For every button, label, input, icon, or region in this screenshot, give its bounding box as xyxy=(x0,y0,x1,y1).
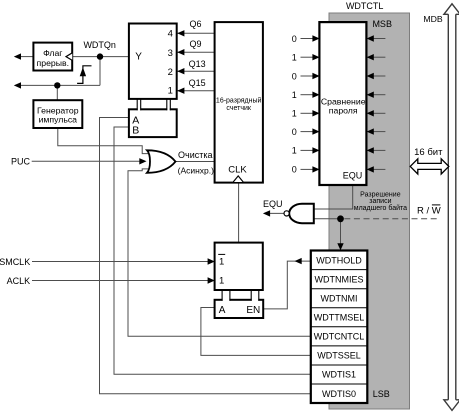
svg-text:младшего байта: младшего байта xyxy=(354,204,407,212)
junction dot WDTQn xyxy=(97,53,103,59)
wire: pulse generator bottom to OR gate top input xyxy=(58,128,151,154)
pulse generator box xyxy=(33,100,82,128)
wire: OR gate output Очистка to counter xyxy=(176,161,215,163)
svg-text:пароля: пароля xyxy=(329,106,358,116)
svg-text:Флаг: Флаг xyxy=(43,48,62,58)
password bit labels xyxy=(292,34,297,175)
wire: WDTCNTCL to OR gate bottom input xyxy=(128,169,311,336)
wire: counter CLK from clock mux xyxy=(238,183,240,243)
svg-text:1: 1 xyxy=(219,257,224,268)
tap mux box xyxy=(129,24,177,99)
wire: tap select B from WDTIS1 xyxy=(114,127,311,374)
wire: R/W to NAND bottom input xyxy=(314,218,341,220)
svg-text:0: 0 xyxy=(292,71,297,81)
svg-text:WDTIS0: WDTIS0 xyxy=(322,389,356,399)
svg-text:Q6: Q6 xyxy=(190,19,202,29)
tap select box A/B xyxy=(129,109,177,137)
password bit arrowheads into box xyxy=(312,35,319,172)
16-bit counter box xyxy=(215,22,263,183)
wire: WDTQn node down to NMI line xyxy=(99,57,101,86)
MDB data bus vertical arrow xyxy=(447,13,449,401)
svg-text:MSB: MSB xyxy=(372,19,392,29)
svg-text:WDTNMI: WDTNMI xyxy=(321,294,358,304)
NAND gate write-enable xyxy=(289,204,314,224)
svg-text:Q15: Q15 xyxy=(189,78,206,88)
svg-text:EQU: EQU xyxy=(263,199,283,209)
wire: SMCLK input xyxy=(32,261,208,263)
svg-text:WDTTMSEL: WDTTMSEL xyxy=(314,313,365,323)
OR gate (clear async) xyxy=(147,150,176,173)
wire: tap select A from WDTIS0 xyxy=(100,118,311,394)
svg-text:1: 1 xyxy=(292,90,297,100)
svg-text:WDTHOLD: WDTHOLD xyxy=(316,255,362,265)
tap mux connector stubs xyxy=(138,108,141,111)
wire: counter Q13 to mux pin 2 xyxy=(177,70,215,72)
wire: counter Q9 to mux pin 3 xyxy=(177,51,215,53)
edge-trigger marker on flag box xyxy=(66,53,72,61)
wire: counter Q15 to mux pin 1 xyxy=(177,90,215,92)
svg-text:16-разрядный: 16-разрядный xyxy=(216,96,262,104)
wire: interrupt flag output left xyxy=(21,56,34,58)
svg-text:B: B xyxy=(132,125,139,137)
svg-text:ACLK: ACLK xyxy=(7,276,31,286)
wire: clock mux EN from WDTHOLD xyxy=(263,261,311,309)
wire: counter Q6 to mux pin 4 xyxy=(177,32,215,34)
svg-text:4: 4 xyxy=(168,29,173,40)
svg-text:0: 0 xyxy=(292,127,297,137)
EQU output arrowhead xyxy=(263,210,270,216)
wire: password bit input stubs left xyxy=(301,39,314,170)
svg-text:прерыв.: прерыв. xyxy=(37,58,69,68)
svg-text:EQU: EQU xyxy=(343,171,363,181)
arrowhead: WDTHOLD to EN xyxy=(295,258,302,264)
svg-text:16 бит: 16 бит xyxy=(414,147,443,158)
register WDTCTL gray background xyxy=(329,13,410,409)
wire: clock mux A select from WDTSSEL xyxy=(201,308,311,356)
svg-text:WDTSSEL: WDTSSEL xyxy=(317,351,361,361)
svg-text:1: 1 xyxy=(292,146,297,156)
password write arrowheads from bus xyxy=(367,35,374,172)
edge detect symbol xyxy=(77,66,91,84)
wire: password write stubs right xyxy=(374,39,386,170)
svg-text:EN: EN xyxy=(246,305,260,316)
wire: Y output to interrupt flag box xyxy=(72,56,129,58)
arrowheads: Q taps into mux xyxy=(177,30,184,36)
wire: ACLK input xyxy=(32,280,208,282)
svg-text:WDTIS1: WDTIS1 xyxy=(322,370,356,380)
svg-text:WDTQn: WDTQn xyxy=(83,40,116,50)
svg-text:0: 0 xyxy=(292,165,297,175)
arrowhead: SMCLK into clock mux xyxy=(208,258,215,264)
junction dot generator/NMI xyxy=(54,82,60,88)
svg-text:0: 0 xyxy=(292,34,297,44)
wire: write strobe down to WDTHOLD xyxy=(340,219,342,245)
svg-text:1: 1 xyxy=(168,86,173,97)
svg-text:импульса: импульса xyxy=(39,115,78,125)
clock source mux box xyxy=(215,243,263,290)
register stack WDTCTL bits xyxy=(311,251,368,404)
svg-text:WDTCNTCL: WDTCNTCL xyxy=(314,332,365,342)
interrupt flag box xyxy=(33,43,72,71)
svg-text:WDTNMIES: WDTNMIES xyxy=(315,274,364,284)
svg-text:PUC: PUC xyxy=(11,157,31,167)
svg-text:Y: Y xyxy=(135,52,142,63)
svg-text:1: 1 xyxy=(219,276,224,287)
svg-text:LSB: LSB xyxy=(373,389,390,399)
svg-text:Q13: Q13 xyxy=(189,59,206,69)
16-bit bus double arrow xyxy=(410,159,449,174)
svg-text:3: 3 xyxy=(168,48,173,59)
clock mux A/EN box xyxy=(215,300,264,318)
wire: pulse generator top xyxy=(56,85,58,100)
svg-text:1: 1 xyxy=(292,53,297,63)
junction dot R/W write strobe xyxy=(337,215,344,222)
svg-text:WDTCTL: WDTCTL xyxy=(346,1,384,11)
svg-text:счетчик: счетчик xyxy=(226,105,251,112)
arrowhead: PUC into OR gate xyxy=(139,158,146,164)
arrowhead: write strobe into WDTHOLD xyxy=(337,243,343,250)
wire: PUC to OR gate xyxy=(32,160,140,162)
svg-text:SMCLK: SMCLK xyxy=(0,257,30,267)
arrowhead: ACLK into clock mux xyxy=(208,277,215,283)
svg-text:Очистка: Очистка xyxy=(178,150,212,160)
svg-text:(Асинхр.): (Асинхр.) xyxy=(178,166,215,176)
wire: NAND gate output EQU xyxy=(270,212,287,214)
svg-text:CLK: CLK xyxy=(228,165,247,176)
svg-text:MDB: MDB xyxy=(423,14,443,24)
svg-text:1: 1 xyxy=(292,109,297,119)
counter clock input triangle xyxy=(233,176,243,182)
svg-text:Q9: Q9 xyxy=(190,39,202,49)
svg-text:R / W: R / W xyxy=(417,206,441,217)
wire: R/W dashed line xyxy=(344,218,440,220)
svg-text:A: A xyxy=(219,305,226,316)
clock mux connector stubs xyxy=(223,298,230,301)
wire: NMI output line left xyxy=(21,84,101,86)
arrowhead: NMI output xyxy=(14,82,21,88)
password compare box xyxy=(319,22,366,185)
wire: password EQU to NAND top input xyxy=(314,185,353,209)
svg-text:2: 2 xyxy=(168,67,173,78)
arrowhead: interrupt flag output xyxy=(14,53,21,59)
NAND output bubble xyxy=(284,211,289,216)
